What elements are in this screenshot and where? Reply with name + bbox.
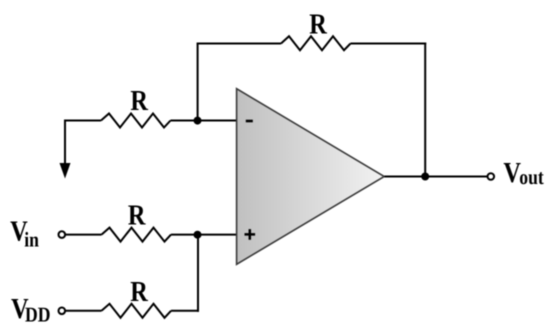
- svg-text:DD: DD: [25, 302, 50, 326]
- terminal VDD: [59, 308, 66, 315]
- wire: feedback left vertical: [197, 44, 199, 121]
- wire: resistor to corner: [171, 310, 199, 312]
- resistor R (feedback): [281, 36, 351, 50]
- wire: VDD to resistor: [65, 310, 101, 312]
- wire: feedback top left segment: [197, 43, 281, 45]
- node A (inverting input junction): [194, 117, 202, 125]
- svg-text:R: R: [130, 276, 148, 308]
- terminal Vout: [488, 173, 495, 180]
- svg-text:out: out: [519, 165, 544, 189]
- op-amp U1: [237, 89, 385, 265]
- resistor R3 (VDD branch): [102, 304, 172, 318]
- wire: left branch horizontal into inverting node: [64, 120, 101, 122]
- svg-text:R: R: [130, 85, 148, 117]
- node C (output junction): [421, 173, 429, 181]
- ground arrow: [60, 163, 71, 179]
- pin label plus: [245, 229, 256, 240]
- wire: resistor to inverting node: [171, 120, 238, 122]
- terminal Vin: [59, 231, 66, 238]
- wire: output: [384, 176, 487, 178]
- pin label minus: [246, 120, 253, 123]
- svg-text:R: R: [128, 200, 146, 232]
- resistor R2 (non-inverting input): [102, 228, 172, 242]
- svg-text:in: in: [24, 228, 39, 252]
- wire: feedback right vertical: [424, 43, 426, 177]
- resistor R1 (inverting input): [101, 114, 171, 128]
- wire: VDD vertical up to node B: [197, 235, 199, 312]
- wire: Vin to resistor: [65, 234, 101, 236]
- wire: resistor to non-inverting node: [171, 234, 237, 236]
- node B (non-inverting input junction): [194, 231, 202, 239]
- wire: arrow vertical: [64, 120, 66, 166]
- svg-text:V: V: [503, 157, 521, 189]
- svg-text:R: R: [309, 8, 327, 40]
- wire: feedback top right segment: [351, 43, 427, 45]
